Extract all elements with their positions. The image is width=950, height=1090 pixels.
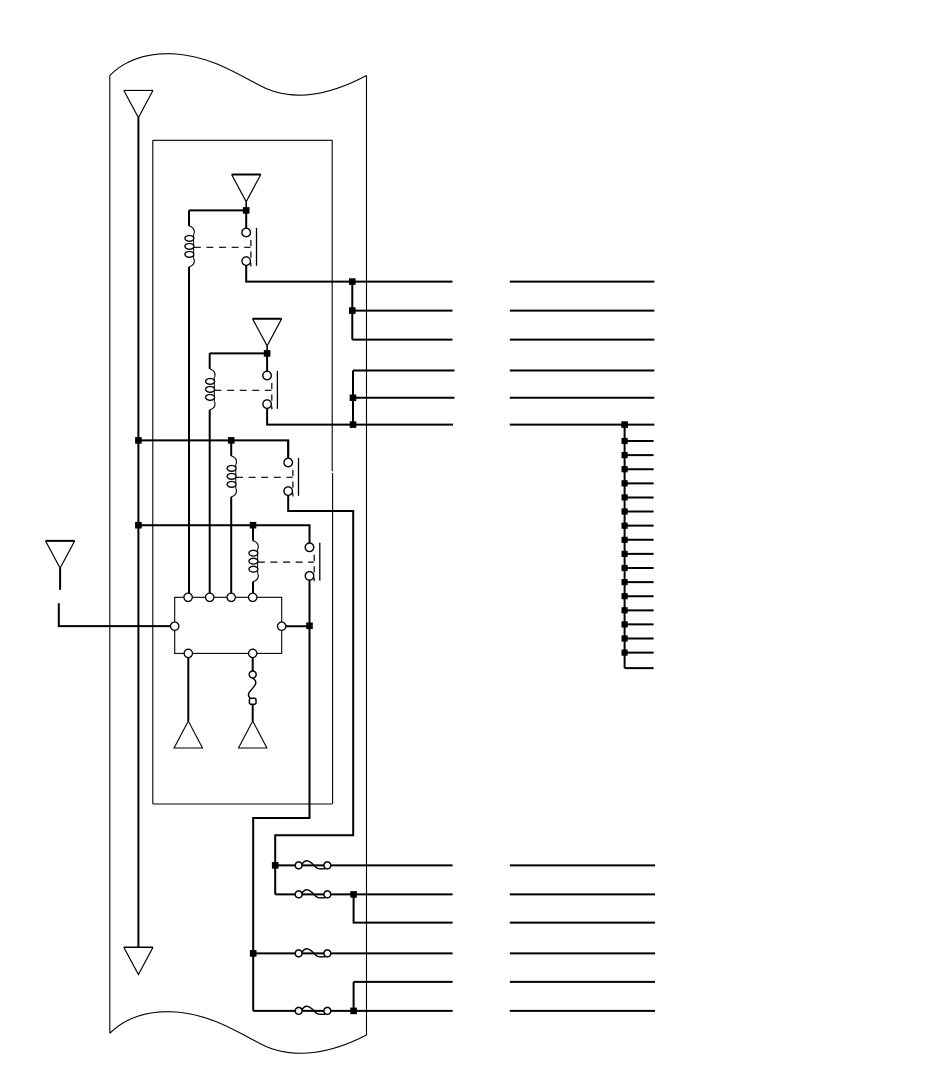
wire T3 lead to U1 left pin (after inline connector gap) bbox=[59, 603, 171, 626]
splice junction node 5 bbox=[622, 480, 628, 486]
wire K3 coil to module pin 3 bbox=[230, 497, 232, 593]
wire U1 pin 8 to inline fuse bbox=[252, 658, 254, 672]
wire splice rung 11 bbox=[625, 567, 654, 569]
wire bottom terminal row 2 right segment bbox=[510, 893, 655, 895]
wire K3 contact feed bbox=[231, 440, 288, 456]
wire K4 contact feed bbox=[253, 525, 310, 541]
junction node fuse row 1 bbox=[272, 862, 279, 869]
module U1 bottom pin 7 bbox=[184, 649, 192, 657]
junction node bus B row 6 bbox=[350, 421, 357, 428]
wire K4 coil to module pin 4 bbox=[252, 582, 254, 594]
wire terminal row 5 right segment bbox=[510, 397, 655, 399]
relay contact K3 bbox=[284, 440, 299, 496]
wire row 5 drop to row 6 bbox=[353, 982, 355, 1011]
splice junction node 8 bbox=[622, 523, 628, 529]
relay contact K1 bbox=[242, 210, 257, 266]
wire splice rung 5 bbox=[625, 482, 654, 484]
wire splice rung 18 (bottom corner) bbox=[625, 667, 654, 669]
splice junction node 7 bbox=[622, 508, 628, 514]
wire terminal row 6 right segment bbox=[510, 424, 655, 426]
junction node bus B row 5 bbox=[350, 395, 357, 402]
wire splice rung 2 bbox=[625, 440, 654, 442]
wire K1 coil to module pin 1 bbox=[188, 267, 190, 593]
wire bottom terminal row 5 right segment bbox=[510, 981, 655, 983]
wire splice rung 14 bbox=[625, 609, 654, 611]
wire T3 lead upper segment bbox=[59, 568, 61, 590]
wire terminal row 2 bbox=[352, 310, 452, 312]
wire row 3 from fuse row 2 junction bbox=[354, 894, 453, 922]
wire K4 contact output down to fuse rows bbox=[253, 580, 309, 1011]
relay actuation dashed link K2 bbox=[215, 389, 272, 391]
wire bottom terminal row 1 right segment bbox=[510, 864, 655, 866]
wire splice rung 10 bbox=[625, 553, 654, 555]
splice ladder bus vertical bbox=[624, 425, 626, 668]
wire K2 coil feed bbox=[210, 352, 267, 354]
splice junction node 13 bbox=[622, 593, 628, 599]
wire main bus to K3 coil bbox=[138, 439, 231, 441]
relay contact K4 bbox=[305, 525, 320, 581]
wire K1 contact output to terminal row 1 bbox=[246, 265, 452, 281]
fusible link F4 bbox=[295, 1006, 331, 1014]
wire row 5 bbox=[354, 981, 453, 983]
main vertical bus wire bbox=[137, 118, 139, 948]
junction node at K3 coil tap bbox=[228, 437, 235, 444]
splice junction node 12 bbox=[622, 579, 628, 585]
relay coil K1 bbox=[185, 210, 194, 267]
control module U1 box bbox=[175, 597, 282, 653]
terminal bus A vertical bbox=[351, 282, 353, 340]
wire terminal row 5 bbox=[353, 397, 455, 399]
relay coil K2 bbox=[206, 353, 215, 410]
relay actuation dashed link K4 bbox=[258, 561, 314, 563]
fusible link F2 bbox=[295, 890, 331, 898]
wire fuse F0 to ground triangle bbox=[252, 704, 254, 721]
wire splice rung 3 bbox=[625, 454, 654, 456]
splice junction node 15 bbox=[622, 621, 628, 627]
connector triangle T3 (left input) bbox=[46, 541, 75, 568]
harness band outline (wavy-ended vertical band) bbox=[110, 54, 367, 1054]
splice junction node 14 bbox=[622, 607, 628, 613]
wire main bus to K4 coil bbox=[138, 524, 253, 526]
wire splice rung 12 bbox=[625, 581, 654, 583]
relay actuation dashed link K3 bbox=[236, 476, 293, 478]
wire splice rung 16 bbox=[625, 638, 654, 640]
wire U1 right pin to K4 output line bbox=[286, 625, 310, 627]
junction node U1 right pin / K4 output bbox=[306, 623, 313, 630]
wire K3 contact output down to fuse row 2 bbox=[275, 495, 353, 894]
wire bottom terminal row 6 right segment bbox=[510, 1010, 655, 1012]
wire K2 coil to module pin 2 bbox=[209, 410, 211, 593]
module U1 left pin 5 bbox=[171, 622, 179, 630]
module U1 top pin 1 bbox=[184, 593, 192, 601]
connector symbol T1 (top) bbox=[124, 90, 153, 117]
splice junction node 9 bbox=[622, 537, 628, 543]
splice junction node 1 bbox=[621, 421, 628, 428]
junction node bus A row 1 bbox=[349, 278, 356, 285]
splice junction node 6 bbox=[622, 494, 628, 500]
wire splice rung 8 bbox=[625, 525, 654, 527]
wire bottom terminal row 4 right segment bbox=[510, 952, 655, 954]
wire K2 contact output to terminal row 6 bbox=[267, 408, 453, 424]
junction node at K4 coil tap bbox=[250, 522, 257, 529]
fusible link F3 bbox=[295, 949, 331, 957]
relay contact K2 bbox=[263, 353, 278, 409]
splice junction node 4 bbox=[622, 466, 628, 472]
wire splice rung 6 bbox=[625, 496, 654, 498]
module U1 bottom pin 8 bbox=[249, 649, 257, 657]
fusible link F1 bbox=[295, 861, 331, 869]
wire terminal row 4 right segment bbox=[510, 370, 655, 372]
power connector triangle above relay K2 bbox=[253, 319, 282, 355]
module U1 top pin 2 bbox=[206, 593, 214, 601]
splice junction node 11 bbox=[622, 565, 628, 571]
power connector triangle above relay K1 bbox=[232, 175, 261, 211]
wire splice rung 7 bbox=[625, 511, 654, 513]
wire K1 coil feed bbox=[189, 209, 246, 211]
wire terminal row 1 right segment bbox=[510, 281, 655, 283]
wire fuse row 1 bbox=[275, 864, 452, 866]
wire terminal row 2 right segment bbox=[510, 310, 655, 312]
wire splice rung 15 bbox=[625, 623, 654, 625]
junction node at K1 feed bbox=[243, 207, 250, 214]
junction node fuse row 4 bbox=[250, 950, 257, 957]
module U1 top pin 4 bbox=[249, 593, 257, 601]
wire splice rung 4 bbox=[625, 468, 654, 470]
wire terminal row 4 bbox=[353, 370, 455, 372]
wire splice rung 9 bbox=[625, 539, 654, 541]
relay actuation dashed link K1 bbox=[194, 246, 251, 248]
wire terminal row 3 right segment bbox=[510, 339, 655, 341]
splice junction node 16 bbox=[622, 635, 628, 641]
relay coil K3 bbox=[227, 440, 236, 497]
relay coil K4 bbox=[249, 525, 258, 582]
connector symbol T2 (bottom) bbox=[124, 947, 153, 974]
terminal bus B vertical bbox=[352, 371, 354, 425]
splice junction node 3 bbox=[622, 452, 628, 458]
wire splice rung 17 bbox=[625, 652, 654, 654]
junction node bus A row 2 bbox=[349, 307, 356, 314]
splice junction node 10 bbox=[622, 551, 628, 557]
junction node on main bus for K3 bbox=[135, 437, 142, 444]
splice junction node 17 bbox=[622, 650, 628, 656]
junction node fuse row 6 bbox=[350, 1008, 357, 1015]
wire U1 pin 7 to ground triangle bbox=[187, 658, 189, 721]
ground triangle G1 bbox=[174, 721, 202, 748]
junction node on main bus for K4 bbox=[135, 522, 142, 529]
wire fuse row 6 bbox=[253, 1010, 452, 1012]
wire terminal row 3 bbox=[352, 339, 452, 341]
junction node fuse row 2 bbox=[350, 891, 357, 898]
wire fuse row 2 bbox=[275, 893, 452, 895]
wire bottom terminal row 3 right segment bbox=[510, 922, 655, 924]
junction node at K2 feed bbox=[264, 350, 271, 357]
module U1 right pin 6 bbox=[278, 622, 286, 630]
module U1 top pin 3 bbox=[227, 593, 235, 601]
wire fuse row 4 bbox=[253, 952, 452, 954]
inner module box bbox=[153, 140, 333, 804]
splice junction node 2 bbox=[622, 438, 628, 444]
ground triangle G2 bbox=[239, 721, 267, 748]
inline fusible link F0 (vertical) bbox=[248, 671, 256, 704]
wire splice rung 13 bbox=[625, 595, 654, 597]
